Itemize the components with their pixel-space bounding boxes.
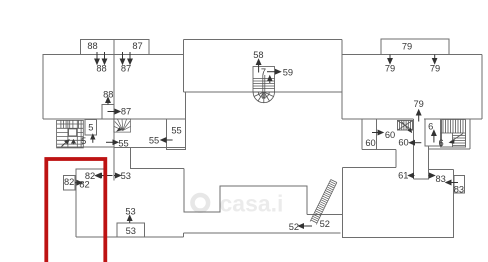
south facade lower: [76, 236, 184, 238]
svg-text:60: 60: [365, 138, 375, 148]
wall middle horizontal y92: [184, 91, 343, 93]
arrow 53 room up: [128, 216, 132, 224]
wall top-left section outline: [43, 55, 81, 120]
svg-text:60: 60: [385, 130, 395, 140]
room 5 box: [85, 120, 96, 136]
svg-text:53: 53: [126, 226, 136, 236]
shaft box left of wall: [102, 105, 114, 120]
arrows 61: [409, 173, 435, 177]
left stairwell landing box: [69, 129, 77, 136]
hatched stair small right: [397, 121, 412, 132]
arrow 5 up: [91, 135, 95, 143]
hatched stair box right: [397, 121, 412, 131]
wall right section top edge left part: [342, 54, 381, 56]
svg-text:88: 88: [96, 64, 106, 74]
arrows 53 double: [97, 173, 121, 177]
svg-text:79: 79: [385, 64, 395, 74]
arrow 87 mid right: [108, 109, 121, 113]
wall step right of 60 rooms: [395, 150, 397, 168]
arrow 55 left: [161, 138, 173, 142]
watermark ring logo: [193, 195, 209, 211]
fan stair left: [114, 119, 131, 132]
svg-text:55: 55: [171, 126, 181, 136]
svg-text:83: 83: [436, 174, 446, 184]
arrow small in stair 7: [268, 76, 272, 83]
balcony 88-87 box: [81, 40, 149, 55]
left stairwell diagonal arrow: [62, 140, 76, 147]
wall right section top edge right part: [449, 54, 482, 56]
arrow into 60B: [372, 130, 383, 134]
room 55 box: [167, 119, 186, 150]
right stair arrow head: [449, 140, 455, 144]
wall step down right of middle section: [341, 40, 343, 55]
arrow 82 right: [75, 181, 82, 185]
wall big room top right segment: [429, 169, 454, 171]
right stairwell details: [441, 120, 466, 148]
svg-text:5: 5: [88, 123, 93, 133]
room 53 box: [117, 223, 145, 237]
svg-text:53: 53: [125, 207, 135, 217]
wall right section right edge: [481, 55, 483, 120]
svg-text:87: 87: [121, 64, 131, 74]
south facade step: [183, 233, 185, 237]
arrow 83 left: [446, 180, 458, 184]
svg-text:53: 53: [121, 171, 131, 181]
svg-text:5: 5: [81, 136, 86, 146]
svg-text:79: 79: [414, 99, 424, 109]
svg-text:6: 6: [439, 138, 444, 148]
wall under ramp: [307, 214, 343, 216]
wall bottom of right rooms band: [429, 148, 470, 150]
svg-text:87: 87: [121, 107, 131, 117]
arrow 79 mid up: [417, 110, 421, 122]
arrow 58 up: [256, 60, 260, 73]
corridor left wall x414: [413, 119, 415, 179]
wall long vertical at x114: [113, 40, 115, 181]
left stairwell block: [57, 120, 84, 147]
arrow 82 left: [96, 173, 105, 177]
svg-text:6: 6: [428, 121, 433, 131]
corridor top wall y147.5: [114, 147, 186, 149]
stair band bottom left: [57, 146, 114, 148]
wall top edge between balcony and step: [149, 54, 184, 56]
svg-text:7: 7: [261, 67, 266, 77]
fan stair left arrow: [116, 127, 122, 132]
wall middle section top edge: [184, 39, 343, 41]
wall rooms band top y119 left part: [342, 118, 414, 120]
svg-text:59: 59: [283, 68, 293, 78]
south facade upper: [184, 232, 341, 234]
svg-text:82: 82: [79, 180, 89, 190]
svg-text:79: 79: [402, 42, 412, 52]
svg-text:88: 88: [87, 41, 97, 51]
red highlight rectangle: [46, 159, 105, 262]
balcony 79 box: [381, 39, 449, 55]
room 82 walls: [76, 169, 104, 237]
wall big room top-left segment: [343, 167, 397, 169]
arrow 6 up: [432, 131, 436, 143]
arrow 88 mid up: [106, 98, 110, 105]
arrow 7 to 59: [267, 70, 281, 74]
svg-text:52: 52: [289, 222, 299, 232]
middle stair 7: [253, 67, 275, 103]
arrows top 79: [388, 55, 437, 64]
svg-text:79: 79: [430, 64, 440, 74]
arrow 52 left: [299, 224, 313, 228]
svg-text:60: 60: [398, 138, 408, 148]
wall courtyard left below mid wall: [185, 92, 187, 150]
right stairwell box: [441, 120, 466, 148]
hatched stair arrow head: [408, 128, 413, 133]
room 60A box walls: [362, 119, 396, 150]
svg-text:52: 52: [320, 219, 330, 229]
courtyard notch walls: [130, 148, 307, 215]
82 small box: [64, 175, 76, 190]
room 6 box: [425, 119, 442, 146]
big bottom-right room outline: [343, 168, 454, 238]
wall corridor right vertical: [428, 146, 430, 170]
83 annex box: [454, 175, 465, 193]
balcony divider: [113, 40, 115, 55]
svg-text:82: 82: [64, 177, 74, 187]
svg-text:88: 88: [103, 90, 113, 100]
U pocket bottom: [414, 149, 429, 179]
svg-text:83: 83: [454, 185, 464, 195]
svg-text:55: 55: [118, 139, 128, 149]
svg-text:61: 61: [398, 170, 408, 180]
wall step vertical left-middle: [183, 40, 185, 93]
ramp 52 hatched: [310, 180, 337, 225]
arrows top 87: [120, 52, 132, 64]
svg-text:87: 87: [132, 41, 142, 51]
wall rooms band top y119 right part: [424, 118, 482, 120]
arrow 55 right: [106, 140, 118, 144]
arrow 60C left: [410, 141, 422, 145]
wall right section left edge: [341, 55, 343, 120]
wall left section bottom: [43, 118, 186, 120]
wall right step at bottom right of big room: [470, 119, 482, 149]
svg-text:55: 55: [149, 136, 159, 146]
svg-text:58: 58: [253, 50, 263, 60]
svg-text:casa.i: casa.i: [220, 191, 284, 217]
arrows top 88: [95, 52, 107, 64]
